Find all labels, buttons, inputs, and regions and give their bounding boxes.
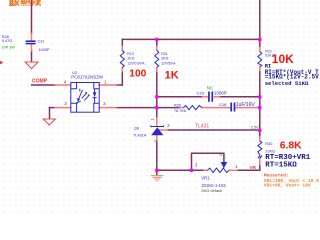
svg-text:1KΩ: 1KΩ bbox=[127, 56, 134, 60]
svg-text:12V/5mA: 12V/5mA bbox=[161, 62, 176, 66]
svg-text:1000P: 1000P bbox=[38, 48, 49, 52]
svg-text:10K: 10K bbox=[272, 52, 294, 66]
svg-text:0.47Ω: 0.47Ω bbox=[2, 39, 12, 43]
svg-text:R30: R30 bbox=[265, 142, 272, 146]
svg-text:1uF/16V: 1uF/16V bbox=[236, 102, 256, 108]
svg-text:1000P: 1000P bbox=[214, 90, 227, 95]
svg-text:TL431: TL431 bbox=[195, 123, 209, 129]
svg-text:5KΩ default: 5KΩ default bbox=[201, 188, 223, 193]
svg-text:C16: C16 bbox=[219, 102, 227, 107]
svg-text:C31: C31 bbox=[38, 40, 45, 44]
svg-text:selected 51KΩ: selected 51KΩ bbox=[265, 80, 309, 87]
svg-text:1K: 1K bbox=[165, 70, 179, 82]
svg-text:R35: R35 bbox=[174, 104, 181, 108]
svg-text:TL431A: TL431A bbox=[133, 133, 147, 137]
svg-text:VR1: VR1 bbox=[201, 176, 210, 181]
svg-text:Q6: Q6 bbox=[134, 126, 139, 130]
svg-text:COMP: COMP bbox=[32, 79, 48, 85]
svg-text:100: 100 bbox=[129, 69, 146, 80]
svg-text:PC817X2NSZW: PC817X2NSZW bbox=[71, 75, 104, 80]
svg-text:78.7KΩ: 78.7KΩ bbox=[174, 109, 187, 113]
svg-text:RT=15KΩ: RT=15KΩ bbox=[265, 161, 297, 169]
svg-text:NC: NC bbox=[207, 85, 214, 90]
svg-text:VR: VR bbox=[250, 165, 257, 170]
svg-text:Measured:: Measured: bbox=[264, 173, 289, 179]
svg-text:10KΩ: 10KΩ bbox=[265, 149, 275, 153]
svg-text:6.8K: 6.8K bbox=[280, 140, 302, 151]
svg-text:DIP 3W: DIP 3W bbox=[2, 45, 15, 49]
svg-text:12V/0.5mA: 12V/0.5mA bbox=[127, 62, 145, 66]
svg-text:2.5V: 2.5V bbox=[251, 126, 259, 130]
svg-text:VR1=0K, Vout= 18V: VR1=0K, Vout= 18V bbox=[264, 183, 311, 189]
svg-text:C23: C23 bbox=[197, 90, 205, 95]
svg-text:2KΩ: 2KΩ bbox=[161, 56, 168, 60]
svg-text:51KΩ: 51KΩ bbox=[265, 53, 274, 57]
